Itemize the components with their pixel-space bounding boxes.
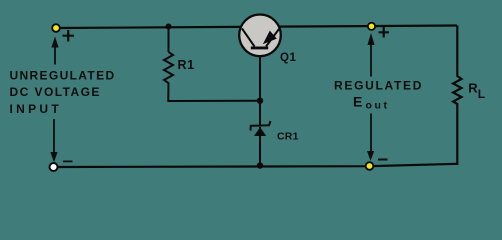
svg-text:out: out: [366, 100, 390, 112]
svg-text:UNREGULATED: UNREGULATED: [10, 69, 116, 83]
svg-text:R: R: [468, 81, 478, 96]
svg-text:REGULATED: REGULATED: [334, 79, 423, 93]
svg-text:DC VOLTAGE: DC VOLTAGE: [10, 85, 101, 99]
svg-text:CR1: CR1: [277, 130, 299, 142]
svg-text:R1: R1: [178, 58, 195, 72]
svg-text:L: L: [478, 87, 485, 101]
svg-text:Q1: Q1: [280, 52, 297, 64]
svg-text:E: E: [353, 94, 362, 110]
svg-text:INPUT: INPUT: [10, 102, 63, 116]
